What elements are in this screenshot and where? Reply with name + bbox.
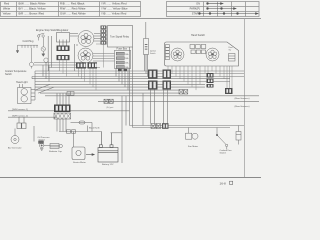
svg-text:Battery 12V: Battery 12V bbox=[102, 163, 114, 166]
svg-text:R/W ...... Red /White: R/W ...... Red /White bbox=[60, 7, 86, 11]
svg-text:Y/W ...... Yellow /Blue: Y/W ...... Yellow /Blue bbox=[101, 7, 128, 11]
svg-text:AC Generator: AC Generator bbox=[8, 147, 22, 150]
svg-text:Oil Pressure: Oil Pressure bbox=[38, 136, 51, 139]
svg-text:Engine Stop Switch: Engine Stop Switch bbox=[36, 29, 58, 32]
svg-text:G/W ...... Red /White: G/W ...... Red /White bbox=[60, 12, 86, 16]
svg-text:Starter Motor: Starter Motor bbox=[73, 161, 86, 164]
svg-text:Red: Red bbox=[4, 2, 10, 6]
svg-text:Coolant Temperature: Coolant Temperature bbox=[5, 70, 27, 73]
svg-text:Radiator Cap: Radiator Cap bbox=[49, 150, 63, 153]
svg-text:(W/H harness 2): (W/H harness 2) bbox=[12, 115, 28, 118]
svg-text:Y/B ...... Yellow /Red: Y/B ...... Yellow /Red bbox=[101, 12, 127, 16]
svg-text:(Rear Harness): (Rear Harness) bbox=[235, 97, 250, 100]
svg-text:16-8: 16-8 bbox=[220, 181, 226, 185]
svg-text:(W/H harness 1): (W/H harness 1) bbox=[12, 108, 28, 111]
svg-text:Cold Plug: Cold Plug bbox=[23, 40, 34, 43]
svg-text:Regulator: Regulator bbox=[58, 29, 69, 32]
svg-text:Switch: Switch bbox=[150, 52, 156, 55]
svg-text:Black Earth: Black Earth bbox=[89, 126, 100, 129]
svg-text:B/R ...... Brown /Red: B/R ...... Brown /Red bbox=[19, 12, 45, 16]
svg-text:Yellow: Yellow bbox=[3, 12, 12, 16]
svg-text:Y/R ...... Yellow /Red: Y/R ...... Yellow /Red bbox=[101, 2, 127, 6]
svg-text:(Fr) part: (Fr) part bbox=[107, 106, 114, 109]
svg-text:ON: ON bbox=[196, 2, 200, 6]
svg-text:Coolant Fan: Coolant Fan bbox=[220, 149, 233, 152]
svg-text:White: White bbox=[3, 7, 11, 11]
svg-text:Fan Motor: Fan Motor bbox=[188, 145, 198, 148]
svg-text:B/Y ...... Black /Yellow: B/Y ...... Black /Yellow bbox=[19, 7, 47, 11]
svg-text:Hand Switch: Hand Switch bbox=[191, 34, 206, 37]
svg-text:Turn Signal Relay: Turn Signal Relay bbox=[110, 36, 130, 39]
svg-text:B/W ...... Black /White: B/W ...... Black /White bbox=[19, 2, 46, 6]
svg-text:PARK(P): PARK(P) bbox=[190, 7, 200, 11]
svg-text:Head Light: Head Light bbox=[16, 81, 28, 84]
svg-text:(Rear Harness): (Rear Harness) bbox=[235, 105, 250, 108]
svg-text:Switch: Switch bbox=[220, 152, 227, 155]
svg-text:R/B ...... Red /Black: R/B ...... Red /Black bbox=[60, 2, 85, 6]
svg-text:Switch: Switch bbox=[5, 73, 12, 76]
